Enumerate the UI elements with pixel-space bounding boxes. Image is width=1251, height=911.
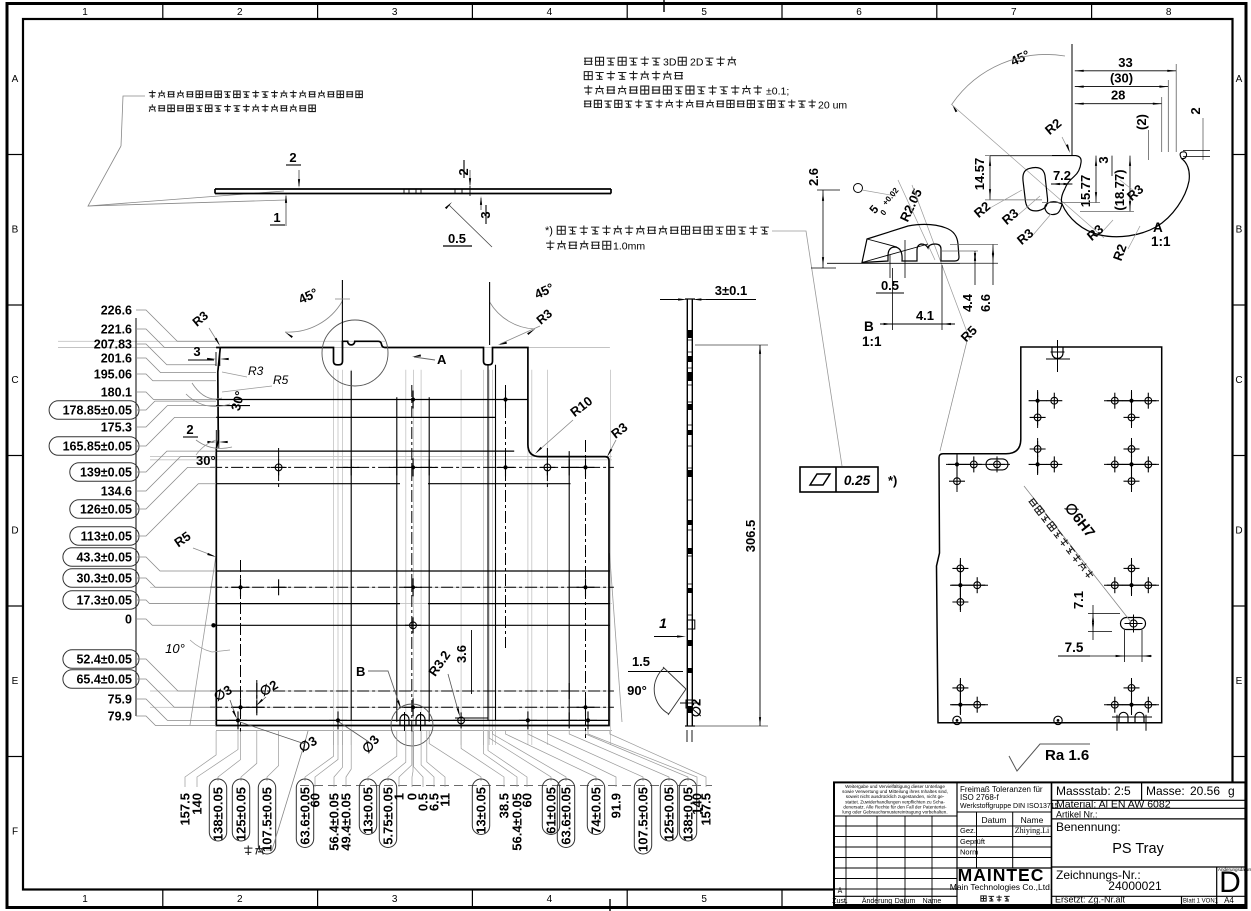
svg-text:A: A (1236, 74, 1243, 85)
detail circle B (391, 704, 433, 746)
bottom ordinate 138±0.05 (586, 731, 689, 781)
svg-text:74±0.05: 74±0.05 (589, 787, 604, 834)
svg-text:R3: R3 (248, 364, 264, 378)
svg-text:140: 140 (190, 793, 205, 815)
svg-text:11: 11 (438, 793, 453, 807)
plan view centerlines (dash-dot) (210, 466, 614, 468)
svg-text:4.4: 4.4 (960, 293, 975, 312)
plan view gray construction lines (58, 340, 385, 342)
bottom ordinate 125±0.05 (241, 731, 257, 781)
svg-text:B: B (356, 664, 365, 679)
svg-text:(30): (30) (1110, 71, 1133, 86)
svg-text:Geprüft: Geprüft (960, 837, 986, 846)
svg-text:±0.1;: ±0.1; (766, 85, 789, 97)
bottom ordinate 60 (315, 731, 338, 787)
bottom ordinate 60 (488, 731, 527, 787)
svg-text:2: 2 (289, 150, 296, 165)
svg-text:Ra 1.6: Ra 1.6 (1045, 747, 1089, 764)
svg-text:Zhiying.Li: Zhiying.Li (1015, 826, 1050, 835)
svg-text:*): *) (888, 473, 897, 488)
rear slot left (986, 459, 1008, 470)
bottom ordinate 140 (197, 731, 238, 787)
svg-text:D: D (1235, 526, 1242, 537)
centering marks (663, 0, 665, 12)
svg-text:28: 28 (1111, 88, 1125, 103)
svg-text:Werkstoffgruppe DIN ISO13715: Werkstoffgruppe DIN ISO13715 (960, 803, 1059, 810)
bottom ordinate dashed baseline (300, 784, 712, 786)
B detail bumps on bottom edge (400, 715, 409, 726)
rear view hole clusters (1029, 400, 1047, 402)
svg-text:7.1: 7.1 (1071, 591, 1086, 609)
svg-text:61±0.05: 61±0.05 (544, 787, 559, 834)
svg-text:221.6: 221.6 (101, 323, 132, 337)
svg-text:Datum: Datum (981, 815, 1006, 825)
svg-text:1.0mm: 1.0mm (613, 241, 645, 253)
10 deg back edge (190, 554, 216, 725)
svg-text:1:1: 1:1 (862, 334, 882, 349)
svg-text:1:1: 1:1 (1151, 234, 1171, 249)
svg-text:33: 33 (1118, 55, 1132, 70)
svg-text:3D: 3D (663, 57, 677, 69)
svg-text:D: D (11, 526, 18, 537)
bottom ordinate 138±0.05 (218, 731, 241, 781)
svg-text:B: B (12, 225, 19, 236)
bottom ordinate 0 (412, 731, 413, 787)
svg-text:2: 2 (237, 7, 243, 18)
svg-text:Masse:: Masse: (1146, 784, 1185, 798)
svg-text:113±0.05: 113±0.05 (81, 530, 132, 544)
svg-text:4: 4 (547, 894, 553, 905)
bottom ordinate 5.75±0.05 (388, 731, 406, 781)
bottom ordinate 13±0.05 (368, 731, 397, 781)
svg-text:0.5: 0.5 (448, 231, 466, 246)
svg-text:E: E (12, 676, 19, 687)
svg-text:3.6: 3.6 (454, 645, 469, 663)
svg-text:7.2: 7.2 (1053, 168, 1071, 183)
svg-text:7: 7 (1011, 7, 1017, 18)
svg-text:(2): (2) (1134, 114, 1149, 130)
svg-text:2: 2 (237, 894, 243, 905)
section view thin bar (686, 299, 688, 726)
bottom ordinate 6.5 (421, 731, 434, 787)
svg-text:3±0.1: 3±0.1 (715, 283, 747, 298)
svg-text:180.1: 180.1 (101, 386, 132, 400)
title block (834, 782, 1245, 905)
svg-text:49.4±0.05: 49.4±0.05 (339, 793, 354, 851)
svg-text:20.56: 20.56 (1190, 784, 1220, 798)
svg-text:6: 6 (856, 7, 862, 18)
svg-text:134.6: 134.6 (101, 485, 132, 499)
svg-text:B: B (864, 319, 874, 334)
svg-text:4: 4 (547, 7, 553, 18)
svg-text:226.6: 226.6 (101, 304, 132, 318)
svg-text:A: A (1153, 220, 1163, 235)
bottom ordinate 125±0.05 (569, 731, 669, 781)
rear view top notch (1052, 347, 1063, 359)
svg-text:Gez.: Gez. (960, 826, 976, 835)
detail B inner wedge (862, 244, 928, 263)
svg-text:C: C (11, 375, 18, 386)
svg-text:(18.77): (18.77) (1112, 169, 1127, 210)
svg-text:13±0.05: 13±0.05 (474, 787, 489, 834)
svg-text:14.57: 14.57 (972, 158, 987, 191)
svg-text:2D: 2D (690, 57, 704, 69)
svg-text:Main Technologies Co.,Ltd.: Main Technologies Co.,Ltd. (950, 882, 1052, 892)
svg-text:60: 60 (308, 793, 323, 807)
svg-text:8: 8 (1166, 7, 1172, 18)
top-left note (Chinese) with leader (149, 90, 363, 98)
svg-text:75.9: 75.9 (108, 693, 132, 707)
svg-text:0: 0 (125, 613, 132, 627)
svg-text:63.6±0.05: 63.6±0.05 (559, 787, 574, 845)
flatness frame (800, 467, 878, 492)
svg-text:2: 2 (186, 422, 193, 437)
svg-text:Name: Name (1021, 815, 1044, 825)
svg-text:157.5: 157.5 (699, 793, 714, 826)
bottom ordinate 11 (427, 731, 445, 787)
rear view outline (937, 347, 1162, 723)
rear view bottom notch (1119, 712, 1144, 722)
svg-text:0.5: 0.5 (881, 278, 899, 293)
svg-text:30°: 30° (196, 453, 216, 468)
svg-text:A4: A4 (1224, 896, 1234, 905)
svg-text:107.5±0.05: 107.5±0.05 (636, 787, 651, 852)
svg-text:ISO 2768-f: ISO 2768-f (960, 793, 999, 802)
svg-text:g: g (1228, 784, 1235, 798)
svg-text:Datum: Datum (895, 898, 916, 905)
svg-text:3: 3 (392, 894, 398, 905)
bottom ordinate 38.5 (461, 731, 504, 787)
svg-text:1: 1 (273, 210, 280, 225)
svg-text:5: 5 (701, 894, 707, 905)
ordinate baseline vertical (135, 318, 137, 716)
svg-text:F: F (12, 827, 18, 838)
svg-text:306.5: 306.5 (743, 520, 758, 553)
bottom ordinate 107.5±0.05 (547, 731, 643, 781)
detail B profile (827, 262, 998, 264)
svg-text:∅2: ∅2 (689, 699, 704, 718)
svg-text:Ä: Ä (838, 887, 843, 895)
bottom ordinate 61±0.05 (489, 731, 551, 781)
svg-text:3: 3 (392, 7, 398, 18)
svg-text:PS Tray: PS Tray (1112, 841, 1164, 857)
svg-text:6.6: 6.6 (978, 294, 993, 312)
bottom ordinate 107.5±0.05 (267, 731, 279, 781)
svg-text:24000021: 24000021 (1108, 879, 1162, 893)
bottom ordinate 56.4±0.05 (334, 731, 343, 787)
svg-text:195.06: 195.06 (94, 368, 132, 382)
svg-text:B: B (1236, 225, 1243, 236)
svg-text:0.25: 0.25 (844, 473, 871, 488)
svg-text:1: 1 (82, 894, 88, 905)
bottom ordinate 63.6±0.05 (493, 731, 567, 781)
qianyuan label (244, 846, 264, 855)
bottom ordinate 1 (399, 731, 412, 787)
svg-text:Zust.: Zust. (832, 898, 848, 905)
svg-text:90°: 90° (627, 683, 647, 698)
svg-text:D: D (1219, 866, 1241, 899)
dim 4.1 detail B (892, 268, 894, 330)
bottom ordinate 56.4±0.05 (484, 731, 518, 787)
svg-text:Norm: Norm (960, 848, 978, 857)
svg-text:125±0.05: 125±0.05 (234, 787, 249, 841)
plan view holes (271, 466, 287, 468)
svg-text:Änderung: Änderung (862, 897, 892, 905)
svg-text:2: 2 (1188, 107, 1203, 114)
svg-text:201.6: 201.6 (101, 352, 132, 366)
svg-text:5: 5 (701, 7, 707, 18)
side view (top) flat plate (215, 188, 611, 190)
bottom ordinate 49.4±0.05 (346, 731, 351, 787)
bottom ordinate 140 (588, 731, 697, 787)
svg-text:C: C (1235, 375, 1242, 386)
svg-text:Artikel Nr.:: Artikel Nr.: (1056, 809, 1098, 819)
svg-text:10°: 10° (165, 641, 185, 656)
svg-text:7.5: 7.5 (1065, 640, 1084, 655)
circle and 5+0.02 (854, 184, 863, 193)
svg-text:lung oder Gebrauchsmustereintr: lung oder Gebrauchsmustereintragung vorb… (842, 810, 947, 815)
bottom ordinate 157.5 (185, 731, 216, 787)
svg-text:Name: Name (923, 898, 942, 905)
svg-text:60: 60 (520, 793, 535, 807)
svg-text:175.3: 175.3 (101, 421, 132, 435)
svg-text:79.9: 79.9 (108, 710, 132, 724)
bottom ordinate 0.5 (414, 731, 423, 787)
top-middle notes (Chinese) (584, 57, 660, 66)
plan view vertical feature lines (350, 371, 352, 721)
bottom ordinate 74±0.05 (506, 731, 597, 781)
svg-text:207.83: 207.83 (94, 338, 132, 352)
svg-text:178.85±0.05: 178.85±0.05 (63, 404, 132, 418)
dim 306.5 (695, 344, 768, 346)
svg-text:91.9: 91.9 (609, 793, 624, 818)
svg-text:Benennung:: Benennung: (1056, 820, 1121, 834)
bottom ordinate 91.9 (528, 731, 616, 787)
svg-text:Massstab: 2:5: Massstab: 2:5 (1056, 784, 1131, 798)
svg-text:13±0.05: 13±0.05 (361, 787, 376, 834)
detail A profile (990, 155, 1076, 157)
svg-text:165.85±0.05: 165.85±0.05 (63, 440, 132, 454)
bottom ordinate 63.6±0.05 (305, 731, 334, 781)
rear slot 6H7 (1121, 618, 1146, 630)
svg-text:R5: R5 (273, 373, 289, 387)
svg-text:20 um: 20 um (818, 100, 847, 112)
svg-text:2.6: 2.6 (806, 168, 821, 186)
svg-text:52.4±0.05: 52.4±0.05 (76, 653, 132, 667)
bottom ordinate 157.5 (610, 731, 706, 787)
svg-text:126±0.05: 126±0.05 (80, 503, 132, 517)
plan view horizontal feature lines (216, 399, 528, 401)
svg-text:Blatt 1 VON1: Blatt 1 VON1 (1183, 899, 1219, 905)
svg-text:17.3±0.05: 17.3±0.05 (76, 594, 132, 608)
bevel swoosh arcs (192, 383, 222, 399)
svg-text:107.5±0.05: 107.5±0.05 (260, 787, 275, 852)
bottom ordinate 13±0.05 (429, 731, 481, 781)
svg-text:3: 3 (193, 344, 200, 359)
svg-text:Ersetzt: Zg.-Nr.alt: Ersetzt: Zg.-Nr.alt (1055, 895, 1126, 905)
svg-text:125±0.05: 125±0.05 (662, 787, 677, 841)
svg-text:138±0.05: 138±0.05 (211, 787, 226, 841)
svg-text:*): *) (545, 225, 553, 237)
svg-text:30.3±0.05: 30.3±0.05 (76, 572, 132, 586)
svg-text:A: A (437, 352, 447, 367)
svg-text:1: 1 (82, 7, 88, 18)
svg-text:1: 1 (659, 615, 667, 631)
svg-text:3: 3 (1096, 156, 1111, 163)
detail circle A (322, 320, 388, 386)
R5 diagonal (912, 185, 970, 340)
svg-text:139±0.05: 139±0.05 (80, 466, 132, 480)
svg-text:E: E (1236, 676, 1243, 687)
svg-text:4.1: 4.1 (916, 308, 934, 323)
svg-text:43.3±0.05: 43.3±0.05 (76, 551, 132, 565)
svg-text:1.5: 1.5 (632, 654, 650, 669)
svg-text:65.4±0.05: 65.4±0.05 (76, 673, 132, 687)
svg-text:A: A (12, 74, 19, 85)
6H7 leader (1024, 486, 1131, 622)
